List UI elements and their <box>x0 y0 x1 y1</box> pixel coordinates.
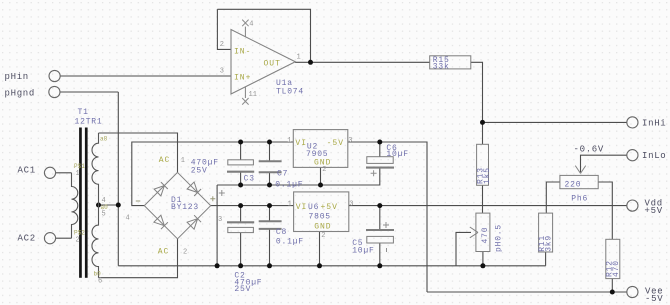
wire center tap <box>99 204 119 206</box>
svg-text:P$1: P$1 <box>74 163 85 170</box>
svg-text:-5V: -5V <box>645 294 663 304</box>
node C2 bottom <box>238 263 243 268</box>
node C3 top <box>238 140 243 145</box>
capacitor C3 470uF 25V <box>191 159 255 184</box>
svg-text:+5V: +5V <box>321 203 338 212</box>
wire C3 top <box>240 142 242 160</box>
wire C2 top <box>240 206 242 223</box>
wire C6 top <box>379 142 381 157</box>
wire InLo to 220 wiper <box>581 155 628 172</box>
wire C5 top <box>379 206 381 230</box>
wire feedback top <box>217 9 310 62</box>
svg-text:25V: 25V <box>234 285 251 294</box>
wire op-amp IN- pin stub <box>217 9 231 49</box>
svg-text:0.1µF: 0.1µF <box>275 180 303 189</box>
svg-text:pHin: pHin <box>5 72 29 82</box>
node R12 bottom Vee <box>610 290 615 295</box>
wire bridge minus to U2 input rail <box>132 142 293 206</box>
svg-text:3: 3 <box>348 137 352 145</box>
svg-text:1: 1 <box>76 170 80 178</box>
wire R13 bottom to trimmer <box>482 185 484 213</box>
connector pHin <box>5 70 61 82</box>
wire U2 GND pin <box>320 167 322 185</box>
svg-text:OUT: OUT <box>264 59 281 68</box>
wire C8 bottom <box>269 229 271 266</box>
connector pHgnd <box>5 86 61 98</box>
resistor R11 3k9 <box>538 213 554 252</box>
svg-text:IN-: IN- <box>234 48 251 57</box>
svg-text:-0.6V: -0.6V <box>574 145 605 155</box>
svg-text:25V: 25V <box>191 166 208 175</box>
trimmer 220 Ph6 <box>560 166 598 204</box>
connector AC2 <box>18 233 72 244</box>
svg-text:3: 3 <box>349 201 353 209</box>
node U2 GND <box>318 183 323 188</box>
wire C5 bottom <box>379 243 381 266</box>
svg-text:7805: 7805 <box>309 213 331 222</box>
svg-text:2: 2 <box>321 232 325 240</box>
wire mid-ground vertical <box>216 185 218 266</box>
diode bottom-left <box>154 215 168 229</box>
svg-text:VI: VI <box>295 139 307 148</box>
op-amp U2 7905 regulator <box>287 130 352 174</box>
svg-text:C7: C7 <box>277 169 288 178</box>
resistor R12 470 <box>605 239 621 278</box>
svg-text:4: 4 <box>249 21 253 29</box>
svg-text:470: 470 <box>481 227 490 244</box>
svg-text:BY123: BY123 <box>171 203 199 212</box>
svg-text:470: 470 <box>612 260 621 277</box>
connector Vee -5V <box>627 286 664 303</box>
node op-amp output junction <box>308 60 313 65</box>
svg-text:2: 2 <box>183 248 187 256</box>
svg-text:2: 2 <box>220 41 224 49</box>
diode top-left <box>154 182 168 196</box>
node center tap right <box>116 203 121 208</box>
wire C3 bottom <box>240 173 242 186</box>
node C5 bottom <box>377 263 382 268</box>
svg-text:33k: 33k <box>433 63 450 72</box>
svg-text:1: 1 <box>287 137 291 145</box>
svg-text:12TR1: 12TR1 <box>75 118 103 127</box>
svg-text:pHgnd: pHgnd <box>5 89 36 99</box>
svg-text:11: 11 <box>249 91 257 99</box>
node C7 bottom <box>267 183 272 188</box>
svg-text:C3: C3 <box>244 175 255 184</box>
svg-text:P$2: P$2 <box>74 230 85 237</box>
node C2 top <box>238 203 243 208</box>
resistor R13 1k5 <box>476 144 491 185</box>
svg-text:IN+: IN+ <box>234 73 251 82</box>
connector InLo <box>627 150 667 162</box>
wire U6 output +5V rail to Vdd <box>349 205 627 207</box>
node trimmer bottom <box>480 263 485 268</box>
resistor R15 33k <box>430 56 471 72</box>
svg-text:220: 220 <box>565 180 582 189</box>
node U6 GND bottom <box>317 263 322 268</box>
node C6 top <box>377 140 382 145</box>
capacitor C5 10uF <box>352 222 394 255</box>
node C8 top <box>267 203 272 208</box>
diode bottom-right <box>187 215 201 229</box>
svg-text:1: 1 <box>297 54 301 62</box>
svg-text:3k9: 3k9 <box>545 235 554 252</box>
svg-text:AC1: AC1 <box>18 166 36 176</box>
node C7 top <box>267 140 272 145</box>
svg-text:b0: b0 <box>94 271 102 278</box>
transformer T1 12TR1 <box>72 108 109 286</box>
svg-text:U6: U6 <box>308 203 319 212</box>
svg-text:1: 1 <box>181 157 185 165</box>
wire mid ground rail <box>217 168 380 186</box>
svg-text:InLo: InLo <box>642 151 666 161</box>
svg-text:+5V: +5V <box>645 206 663 216</box>
svg-text:0.1µF: 0.1µF <box>276 237 304 246</box>
svg-text:3: 3 <box>218 216 222 224</box>
wire U2 output to -5V corner <box>348 142 427 292</box>
svg-text:10µF: 10µF <box>352 246 374 255</box>
bridge rectifier D1 BY123 <box>144 172 210 238</box>
wire R11 bottom to ground rail <box>545 252 547 266</box>
node C3 bottom <box>238 183 243 188</box>
diode top-right <box>187 182 201 196</box>
svg-text:1: 1 <box>288 201 292 209</box>
svg-text:a8: a8 <box>100 136 108 143</box>
capacitor C2 470uF 25V <box>219 190 263 294</box>
connector AC1 <box>18 166 72 179</box>
svg-text:InHi: InHi <box>642 118 666 128</box>
svg-text:2: 2 <box>76 237 80 245</box>
svg-text:pH0.5: pH0.5 <box>494 224 503 252</box>
node InHi junction <box>480 120 485 125</box>
capacitor C7 0.1uF <box>259 161 304 189</box>
wire Vee rail <box>427 291 627 293</box>
svg-text:3: 3 <box>220 67 224 75</box>
wire 220 left pin to R11 <box>546 182 560 213</box>
wire ground bottom rail <box>118 265 545 267</box>
wire secondary bottom to bridge AC2 <box>99 239 178 278</box>
svg-text:4: 4 <box>126 215 130 223</box>
wire U6 GND pin <box>319 232 321 266</box>
wire secondary top to bridge AC1 <box>99 133 178 172</box>
svg-text:AC: AC <box>159 156 171 165</box>
wire op-amp output to R15 <box>295 61 430 63</box>
wire pHgnd vertical down to ground rail <box>117 92 119 266</box>
connector Vdd +5V <box>627 199 663 217</box>
wire node to InHi connector <box>483 121 628 123</box>
node C8 bottom <box>267 263 272 268</box>
node center tap left <box>96 203 101 208</box>
wire trimmer wiper to ground <box>456 232 471 265</box>
wire C7 bottom <box>269 172 271 185</box>
connector InHi <box>627 117 667 129</box>
op-amp U1a TL074 <box>220 20 304 105</box>
wire R12 bottom to Vee rail <box>611 279 613 292</box>
node gnd rail x217 <box>215 263 220 268</box>
svg-text:C8: C8 <box>276 228 287 237</box>
wire bridge plus to U6 input rail <box>211 205 294 207</box>
svg-text:AC2: AC2 <box>18 234 36 244</box>
wire trimmer bottom to ground rail <box>482 252 484 266</box>
svg-text:TL074: TL074 <box>276 88 304 97</box>
wire R15 to InHi node <box>471 62 483 144</box>
svg-text:5: 5 <box>102 211 106 219</box>
svg-text:2: 2 <box>322 166 326 174</box>
svg-text:T1: T1 <box>78 108 89 117</box>
node C5 top <box>377 203 382 208</box>
wire pHin to op-amp IN+ <box>60 75 231 77</box>
svg-text:Ph6: Ph6 <box>571 195 588 204</box>
wire pHgnd horizontal <box>60 91 118 93</box>
wire C2 bottom <box>240 233 242 266</box>
wire C7 top <box>269 142 271 161</box>
regulator U6 7805 <box>288 192 354 240</box>
svg-text:VI: VI <box>296 203 308 212</box>
capacitor C6 10uF <box>366 144 409 176</box>
svg-text:GND: GND <box>314 223 331 232</box>
svg-text:AC: AC <box>158 247 170 256</box>
trimmer 470 pH0.5 <box>470 213 504 252</box>
wire C8 top <box>269 206 271 222</box>
svg-text:-5V: -5V <box>327 139 344 148</box>
capacitor C8 0.1uF <box>259 221 304 246</box>
svg-text:6: 6 <box>98 278 102 286</box>
svg-text:10µF: 10µF <box>386 150 408 159</box>
svg-text:1k5: 1k5 <box>483 167 492 184</box>
wire 220 right pin to R12 <box>598 182 612 239</box>
